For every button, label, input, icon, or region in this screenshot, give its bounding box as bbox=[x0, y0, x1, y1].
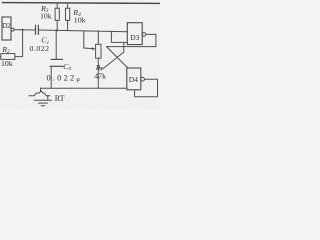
svg-text:RT: RT bbox=[55, 94, 65, 103]
wire D3 output feedback bbox=[107, 34, 156, 46]
node junction R3/C4 bbox=[56, 29, 58, 31]
ground bbox=[34, 96, 51, 106]
power rail top bbox=[3, 2, 160, 5]
node junction feedback bbox=[22, 29, 24, 31]
potentiometer RP bbox=[96, 31, 101, 88]
svg-text:10k: 10k bbox=[40, 12, 52, 21]
wire D3 second input from main bbox=[111, 31, 127, 42]
wire R2 left stub bbox=[0, 56, 2, 58]
capacitor C1 bbox=[36, 25, 39, 34]
wiper arrow of RP bbox=[84, 31, 96, 50]
svg-text:D3: D3 bbox=[130, 33, 139, 42]
wire cross diagonal D3 out to D4 in bbox=[107, 47, 128, 68]
RT switch fixed contact tick bbox=[40, 88, 42, 91]
svg-text:10k: 10k bbox=[1, 59, 13, 68]
svg-text:10k: 10k bbox=[74, 15, 86, 24]
main wire C1 to D3 bbox=[39, 30, 127, 32]
wire D2 output to C1 bbox=[14, 29, 35, 31]
svg-text:0.022: 0.022 bbox=[30, 44, 50, 53]
svg-text:47k: 47k bbox=[94, 71, 106, 80]
gate D2 bbox=[2, 17, 14, 40]
gate D4 bbox=[127, 68, 145, 90]
resistor R2 bbox=[1, 54, 15, 60]
gate D3 bbox=[127, 23, 146, 45]
svg-text:0.022μ: 0.022μ bbox=[47, 74, 81, 83]
resistor R3 bbox=[55, 3, 59, 31]
svg-text:D4: D4 bbox=[129, 75, 138, 84]
wire bottom rail to D4 input bbox=[41, 87, 127, 89]
wire branch from RP bottom bbox=[98, 42, 124, 68]
capacitor C4 bbox=[50, 30, 63, 88]
resistor R4 bbox=[66, 3, 70, 31]
RT switch lever bbox=[29, 91, 50, 96]
svg-text:D2: D2 bbox=[2, 22, 11, 30]
wire R2 feedback bbox=[15, 30, 23, 57]
wire D4 output loop to own lower input bbox=[135, 79, 158, 97]
